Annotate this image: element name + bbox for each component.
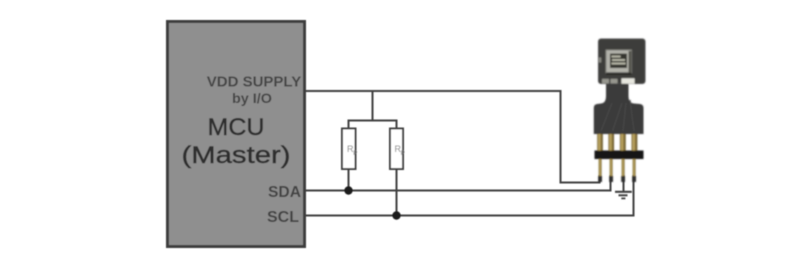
sensor metal cap xyxy=(606,50,633,74)
sensor head edge glint xyxy=(599,58,601,63)
sensor pin 1 (VDD) xyxy=(597,130,603,182)
sensor head pcb xyxy=(599,39,646,84)
svg-text:P: P xyxy=(401,150,405,157)
wire SDA from MCU to sensor pin 2 xyxy=(305,175,611,191)
svg-text:MCU: MCU xyxy=(208,114,265,141)
sensor pin 4 (SCK/SCL) xyxy=(632,130,638,182)
resistor Rp (right, SCL pull-up) xyxy=(390,129,405,170)
svg-text:VDD SUPPLY: VDD SUPPLY xyxy=(207,74,301,91)
junction node SCL xyxy=(392,211,400,219)
wire VDD from MCU to sensor pin 1 xyxy=(305,91,600,183)
wire SCL from MCU to sensor pin 4 xyxy=(305,175,634,216)
MCU block U1 xyxy=(168,22,305,247)
wire right resistor bottom lead xyxy=(396,169,398,216)
sensor header band xyxy=(595,151,644,160)
sensor body traces xyxy=(601,100,634,131)
sensor body xyxy=(594,82,644,134)
resistor Rp (left, SDA pull-up) xyxy=(342,129,357,170)
junction node SDA xyxy=(344,186,352,194)
svg-text:P: P xyxy=(353,150,357,157)
wire left resistor bottom lead xyxy=(348,169,350,191)
sensor pin 2 (DATA/SDA) xyxy=(608,130,614,182)
ground xyxy=(615,175,632,198)
svg-text:(Master): (Master) xyxy=(182,142,291,169)
svg-text:SCL: SCL xyxy=(267,209,299,226)
sensor pads xyxy=(602,79,609,84)
svg-text:SDA: SDA xyxy=(268,184,301,201)
wire splitter to resistor tops xyxy=(349,121,397,129)
sensor pin 3 (GND) xyxy=(620,130,626,182)
wire stub to pull-up resistors xyxy=(372,91,374,121)
svg-text:by I/O: by I/O xyxy=(232,90,272,106)
sensor module (SHT1x photo) xyxy=(594,39,645,182)
